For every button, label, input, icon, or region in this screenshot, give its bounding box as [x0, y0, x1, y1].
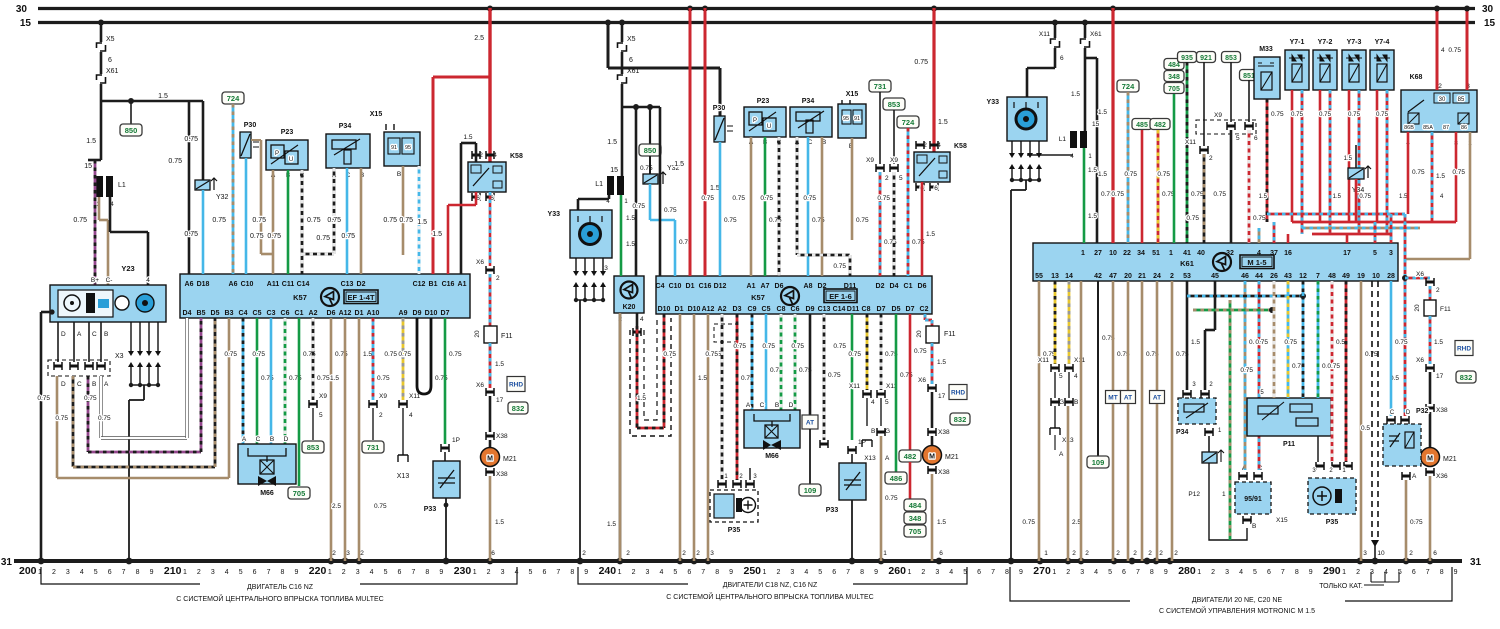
fuse F11 left	[489, 274, 492, 326]
svg-text:C13: C13	[818, 306, 831, 313]
wire white loop X3-A to K57 D4	[99, 376, 102, 438]
svg-text:A9: A9	[399, 310, 408, 317]
svg-text:0.75: 0.75	[1448, 47, 1461, 54]
svg-text:X11: X11	[849, 383, 860, 390]
connector X36 right	[1426, 468, 1434, 476]
svg-text:5: 5	[239, 569, 243, 576]
svg-text:4: 4	[640, 316, 644, 323]
svg-text:C16: C16	[699, 283, 712, 290]
K57 left EF 1-4T label	[344, 290, 378, 304]
svg-text:2: 2	[1116, 550, 1120, 557]
svg-text:C4: C4	[656, 283, 665, 290]
injector wires down	[1348, 90, 1351, 222]
svg-text:2: 2	[632, 569, 636, 576]
bus 15	[38, 21, 1475, 24]
svg-text:K61: K61	[1180, 259, 1194, 268]
caption section 3 bracket	[1010, 567, 1452, 601]
wire red-yellow 482 to K61 pin 51	[1157, 130, 1160, 243]
solenoid Y32 left	[202, 101, 205, 180]
svg-text:0.75: 0.75	[732, 195, 745, 202]
svg-text:6: 6	[542, 569, 546, 576]
svg-text:Y23: Y23	[121, 264, 134, 273]
svg-text:1.5: 1.5	[86, 138, 96, 145]
svg-text:K20: K20	[623, 304, 636, 311]
svg-text:724: 724	[227, 94, 240, 103]
wire to X38 middle	[931, 392, 934, 428]
svg-text:486: 486	[890, 474, 903, 483]
svg-text:6: 6	[939, 550, 943, 557]
svg-text:B: B	[871, 428, 875, 435]
red wire bus30 to K57m C16	[704, 8, 707, 276]
wire black pin53 to P34 right	[1186, 281, 1189, 390]
connector X6 left	[486, 266, 494, 274]
svg-text:1.5: 1.5	[637, 395, 646, 402]
wire brown K68 pin1 down right edge	[1469, 132, 1472, 259]
wire black down to level 15	[100, 101, 103, 160]
svg-text:0.75: 0.75	[212, 217, 226, 224]
svg-text:1.5: 1.5	[607, 139, 617, 146]
svg-text:0.75: 0.75	[1253, 215, 1266, 222]
injector box	[1285, 50, 1309, 90]
bus 31 junction dots	[38, 558, 45, 565]
svg-text:U: U	[767, 124, 771, 130]
svg-text:Y34: Y34	[1352, 187, 1365, 194]
svg-text:P34: P34	[339, 123, 352, 130]
svg-text:3: 3	[501, 569, 505, 576]
svg-text:С СИСТЕМОЙ ЦЕНТРАЛЬНОГО ВПРЫСК: С СИСТЕМОЙ ЦЕНТРАЛЬНОГО ВПРЫСКА ТОПЛИВА …	[666, 592, 873, 601]
svg-text:3: 3	[346, 550, 350, 557]
svg-text:7: 7	[122, 569, 126, 576]
red feed wire 2.5 from bus 30	[488, 8, 491, 162]
svg-text:2: 2	[379, 412, 383, 419]
svg-text:15: 15	[610, 167, 618, 174]
wire black A1 over K58	[475, 143, 478, 162]
junction dots on bus 30	[487, 6, 493, 12]
svg-text:40: 40	[1197, 250, 1205, 257]
label 482 right	[1150, 119, 1170, 130]
svg-text:F11: F11	[1440, 306, 1451, 313]
svg-text:2: 2	[360, 550, 364, 557]
svg-text:0.75: 0.75	[398, 351, 411, 358]
svg-text:1.5: 1.5	[1434, 339, 1443, 346]
svg-text:0.75: 0.75	[252, 217, 266, 224]
svg-text:B+: B+	[91, 277, 99, 284]
svg-text:4: 4	[80, 569, 84, 576]
svg-text:0.75: 0.75	[803, 195, 816, 202]
solenoid P12 right	[1202, 452, 1217, 463]
red bus wires from K68 down to manifold	[1267, 213, 1405, 216]
svg-text:12: 12	[1299, 273, 1307, 280]
svg-text:P30: P30	[713, 105, 726, 112]
svg-text:6: 6	[934, 185, 938, 192]
EGR valve P35 middle	[718, 480, 726, 488]
label 731 left	[362, 441, 384, 453]
connector X6 lower left	[486, 388, 494, 396]
svg-text:M21: M21	[1443, 456, 1457, 463]
svg-text:1.5: 1.5	[698, 375, 707, 382]
svg-text:9: 9	[584, 569, 588, 576]
svg-text:15: 15	[1484, 18, 1496, 29]
wire brown P23-A to K57 A11	[272, 170, 275, 274]
wire striped blue-brown 724 to K57 A6	[232, 104, 235, 274]
svg-text:C10: C10	[669, 283, 682, 290]
svg-text:X6: X6	[476, 382, 484, 389]
dashed catalyst wire pin10 to bus 31	[1372, 281, 1378, 540]
svg-text:2: 2	[776, 569, 780, 576]
svg-text:F11: F11	[944, 331, 956, 338]
svg-text:0.75: 0.75	[914, 59, 928, 66]
svg-text:705: 705	[293, 489, 306, 498]
wire brown D6 to bus 31	[330, 318, 333, 561]
wire green C1 to label 705	[298, 318, 301, 486]
wire white-black D7m to connector chain	[880, 314, 883, 390]
svg-text:D4: D4	[183, 310, 192, 317]
svg-text:9: 9	[439, 569, 443, 576]
svg-text:X15: X15	[370, 111, 383, 118]
svg-text:30: 30	[1439, 97, 1446, 103]
svg-text:724: 724	[1122, 82, 1135, 91]
svg-text:1: 1	[763, 569, 767, 576]
svg-text:16: 16	[1284, 250, 1292, 257]
wire striped 724r to K61 pin 22	[1127, 92, 1130, 243]
svg-text:853: 853	[307, 443, 320, 452]
label 705 left	[288, 487, 310, 499]
wire to X38	[489, 396, 492, 432]
svg-text:2: 2	[1436, 287, 1440, 294]
svg-text:15: 15	[1092, 121, 1100, 128]
svg-text:2: 2	[1409, 550, 1413, 557]
svg-text:8: 8	[1150, 569, 1154, 576]
svg-text:3: 3	[1363, 550, 1367, 557]
connector X6 right column	[1426, 278, 1434, 286]
svg-text:C5: C5	[253, 310, 262, 317]
svg-text:B: B	[1074, 399, 1078, 406]
svg-text:P23: P23	[281, 129, 294, 136]
svg-text:A: A	[242, 436, 247, 443]
svg-text:2: 2	[332, 550, 336, 557]
svg-text:1: 1	[473, 569, 477, 576]
svg-text:8: 8	[715, 569, 719, 576]
svg-text:0.75: 0.75	[1327, 363, 1340, 370]
svg-text:6: 6	[1267, 569, 1271, 576]
svg-text:С СИСТЕМОЙ ЦЕНТРАЛЬНОГО ВПРЫСК: С СИСТЕМОЙ ЦЕНТРАЛЬНОГО ВПРЫСКА ТОПЛИВА …	[176, 594, 383, 603]
wire green C5 to M66-C	[256, 318, 259, 444]
label 921 right	[1197, 52, 1216, 63]
svg-text:7: 7	[991, 569, 995, 576]
svg-text:0.75: 0.75	[914, 348, 927, 355]
svg-text:0.75: 0.75	[664, 207, 677, 214]
svg-text:2: 2	[52, 569, 56, 576]
svg-text:A10: A10	[367, 310, 380, 317]
svg-text:X9: X9	[1214, 112, 1222, 119]
svg-text:1: 1	[183, 569, 187, 576]
label 832 left	[508, 402, 528, 414]
svg-text:230: 230	[454, 565, 472, 577]
svg-text:5: 5	[885, 399, 889, 406]
svg-text:832: 832	[512, 404, 525, 413]
svg-text:53: 53	[1183, 273, 1191, 280]
svg-text:20: 20	[474, 330, 481, 338]
svg-text:1.5: 1.5	[937, 359, 946, 366]
svg-text:4: 4	[146, 277, 150, 284]
wire black to L1 middle	[621, 107, 624, 176]
svg-text:5: 5	[319, 412, 323, 419]
svg-text:8: 8	[1295, 569, 1299, 576]
wire brown M21m to bus 31	[931, 474, 934, 561]
svg-text:5: 5	[818, 569, 822, 576]
Y23 bottom pins to X3	[57, 322, 59, 362]
svg-text:86: 86	[1461, 125, 1467, 131]
wire brown P23m-A to K57m A1	[750, 137, 753, 276]
svg-text:2: 2	[1356, 569, 1360, 576]
svg-text:20: 20	[916, 330, 923, 338]
wire brown L1 to Y23 C-	[98, 197, 101, 220]
svg-text:0.75: 0.75	[701, 195, 714, 202]
svg-text:0.75: 0.75	[1452, 169, 1465, 176]
svg-text:853: 853	[1225, 55, 1237, 62]
svg-text:B: B	[92, 381, 96, 388]
svg-text:X38: X38	[938, 469, 950, 476]
svg-text:0.75: 0.75	[252, 351, 265, 358]
svg-text:0.75: 0.75	[1022, 519, 1035, 526]
svg-text:15: 15	[84, 163, 92, 170]
svg-text:832: 832	[1460, 373, 1473, 382]
svg-text:P12: P12	[1188, 491, 1200, 498]
svg-text:D18: D18	[197, 281, 210, 288]
svg-text:A: A	[104, 381, 109, 388]
svg-text:2: 2	[921, 569, 925, 576]
red wire bus30 to K57m D1	[689, 8, 692, 276]
svg-text:C5: C5	[762, 306, 771, 313]
svg-text:M66: M66	[765, 453, 779, 460]
svg-text:7: 7	[411, 569, 415, 576]
svg-text:3: 3	[356, 569, 360, 576]
svg-text:D10: D10	[658, 306, 671, 313]
wire	[621, 52, 624, 74]
svg-text:3: 3	[1080, 569, 1084, 576]
svg-text:1.5: 1.5	[363, 351, 372, 358]
svg-text:X11: X11	[1038, 357, 1049, 364]
svg-text:0.75: 0.75	[1359, 194, 1371, 200]
svg-text:30: 30	[16, 4, 28, 15]
fuse X61 left	[97, 75, 106, 83]
wire brown to bus 31	[880, 436, 883, 561]
svg-text:X6: X6	[1416, 271, 1424, 278]
svg-text:91: 91	[854, 116, 860, 122]
svg-text:X9: X9	[890, 157, 898, 164]
svg-text:3: 3	[935, 569, 939, 576]
svg-text:1.5: 1.5	[626, 241, 635, 248]
svg-text:1.5: 1.5	[938, 119, 948, 126]
svg-text:3: 3	[66, 569, 70, 576]
wires to idle valve M66 middle	[751, 314, 754, 410]
svg-text:C6: C6	[281, 310, 290, 317]
svg-text:C13: C13	[341, 281, 354, 288]
svg-text:832: 832	[954, 415, 967, 424]
svg-text:P35: P35	[728, 527, 741, 534]
svg-text:D4: D4	[890, 283, 899, 290]
svg-text:4: 4	[1239, 569, 1243, 576]
label AT middle	[802, 415, 818, 429]
svg-text:8: 8	[136, 569, 140, 576]
svg-text:0.5: 0.5	[1361, 425, 1370, 432]
svg-text:3: 3	[710, 550, 714, 557]
wire brown pin short to bus 31	[1080, 281, 1083, 561]
wire light blue C3 to M66-B	[270, 318, 273, 444]
wire black D9m to AT label	[809, 314, 812, 415]
wire black distribution left	[100, 84, 103, 101]
labels 484 348 705 middle	[904, 499, 926, 511]
svg-text:2: 2	[197, 569, 201, 576]
svg-text:0.75: 0.75	[1240, 367, 1253, 374]
svg-text:C11: C11	[282, 281, 295, 288]
wire to solenoid Y32 middle	[649, 156, 651, 174]
svg-text:1.5: 1.5	[1436, 173, 1445, 180]
svg-text:51: 51	[1152, 250, 1160, 257]
svg-text:4: 4	[804, 569, 808, 576]
svg-text:M66: M66	[260, 490, 274, 497]
svg-text:X9: X9	[866, 157, 874, 164]
svg-text:0.75: 0.75	[168, 158, 182, 165]
wire green L1-1 to relay K20	[620, 195, 623, 276]
svg-text:20: 20	[1414, 304, 1421, 312]
svg-text:0.75: 0.75	[267, 233, 281, 240]
svg-text:B: B	[775, 402, 779, 409]
svg-text:A8: A8	[804, 283, 813, 290]
svg-text:8: 8	[281, 569, 285, 576]
svg-text:0.75: 0.75	[885, 495, 898, 502]
svg-text:0.75: 0.75	[1412, 169, 1425, 176]
svg-text:3: 3	[790, 569, 794, 576]
svg-text:7: 7	[846, 569, 850, 576]
svg-text:935: 935	[1181, 55, 1193, 62]
svg-text:P23: P23	[757, 98, 770, 105]
wire black loop D9-D10	[417, 318, 431, 394]
svg-text:B: B	[104, 331, 108, 338]
svg-text:1.5: 1.5	[1259, 194, 1268, 200]
svg-text:P: P	[275, 151, 279, 157]
svg-text:G: G	[1059, 399, 1064, 406]
svg-text:2: 2	[696, 550, 700, 557]
svg-text:F11: F11	[501, 333, 513, 340]
svg-text:C: C	[92, 331, 97, 338]
svg-text:0.75: 0.75	[377, 375, 390, 382]
svg-text:3: 3	[1225, 569, 1229, 576]
svg-text:X9: X9	[379, 393, 387, 400]
svg-text:L1: L1	[118, 182, 126, 189]
capacitor P33 middle	[839, 463, 866, 500]
svg-text:4: 4	[409, 412, 413, 419]
svg-text:0.75: 0.75	[1410, 519, 1423, 526]
svg-text:2: 2	[1209, 155, 1213, 162]
solenoid Y32 middle	[643, 174, 658, 184]
svg-text:D: D	[61, 331, 66, 338]
svg-text:15: 15	[20, 18, 32, 29]
svg-text:1: 1	[328, 569, 332, 576]
svg-text:D: D	[284, 436, 289, 443]
svg-text:290: 290	[1323, 565, 1341, 577]
svg-text:X36: X36	[1436, 473, 1448, 480]
svg-text:731: 731	[874, 82, 887, 91]
svg-text:47: 47	[1109, 273, 1117, 280]
svg-text:0.75: 0.75	[184, 136, 198, 143]
svg-text:X5: X5	[106, 36, 115, 43]
svg-text:27: 27	[1094, 250, 1102, 257]
svg-text:5: 5	[94, 569, 98, 576]
wire light blue P34m-C to K57m A8	[807, 137, 810, 276]
wire brown pin24 to AT to bus31	[1156, 281, 1159, 390]
label RHD left	[507, 377, 525, 392]
svg-text:7: 7	[556, 569, 560, 576]
svg-text:D2: D2	[876, 283, 885, 290]
svg-text:0.75: 0.75	[1186, 215, 1199, 222]
svg-text:9: 9	[1019, 569, 1023, 576]
svg-text:1P: 1P	[452, 437, 460, 444]
svg-text:1.5: 1.5	[1088, 167, 1097, 174]
svg-text:731: 731	[367, 443, 380, 452]
svg-text:RHD: RHD	[951, 390, 965, 397]
svg-text:X11: X11	[409, 393, 420, 400]
injector box	[1342, 50, 1366, 90]
svg-text:1.5: 1.5	[926, 231, 935, 238]
svg-text:2: 2	[1174, 550, 1178, 557]
svg-text:M33: M33	[1259, 46, 1273, 53]
svg-text:C14: C14	[833, 306, 846, 313]
motor M21 middle	[931, 436, 934, 446]
wire AT to 109	[809, 429, 811, 484]
svg-text:14: 14	[1065, 273, 1073, 280]
svg-text:P30: P30	[244, 122, 257, 129]
svg-text:B1: B1	[429, 281, 438, 288]
svg-text:0.75: 0.75	[1255, 339, 1268, 346]
svg-text:C1: C1	[295, 310, 304, 317]
wire red K68 pin8 to bus 222	[1455, 132, 1458, 222]
svg-text:9: 9	[294, 569, 298, 576]
wire brown X15-B down	[402, 166, 405, 255]
svg-text:D11: D11	[847, 306, 860, 313]
svg-text:2: 2	[1066, 569, 1070, 576]
wire to X38 right	[1429, 372, 1432, 404]
svg-text:2: 2	[1159, 550, 1163, 557]
wire green D11m to capacitor P33 middle	[851, 314, 854, 440]
svg-text:X13: X13	[864, 455, 876, 462]
svg-text:1.5: 1.5	[1071, 91, 1080, 98]
connector X38 middle	[928, 428, 936, 436]
wire blue-red A10 to connector X9	[372, 318, 375, 400]
wire 921 to X11 to K61 pin 40	[1203, 62, 1205, 146]
wire green L1r to K61 pin 1	[1083, 148, 1086, 243]
svg-text:C8: C8	[777, 306, 786, 313]
svg-text:0.75: 0.75	[1291, 111, 1304, 118]
svg-text:1: 1	[1052, 569, 1056, 576]
wire X61 branches	[1084, 48, 1087, 131]
svg-text:9: 9	[729, 569, 733, 576]
svg-text:0.75: 0.75	[1376, 111, 1389, 118]
svg-text:U: U	[289, 157, 293, 163]
svg-text:X13: X13	[397, 473, 410, 480]
svg-text:1.5: 1.5	[417, 219, 427, 226]
injector wires down	[1291, 90, 1294, 222]
caption section 2 bracket	[578, 567, 967, 584]
svg-text:X9: X9	[319, 393, 327, 400]
svg-text:260: 260	[888, 565, 906, 577]
svg-text:D1: D1	[675, 306, 684, 313]
K57 middle EF 1-6 label	[824, 289, 857, 303]
wire brown X15m down	[851, 138, 854, 240]
svg-text:1: 1	[1342, 569, 1346, 576]
svg-text:1.5: 1.5	[432, 231, 442, 238]
svg-text:B5: B5	[197, 310, 206, 317]
